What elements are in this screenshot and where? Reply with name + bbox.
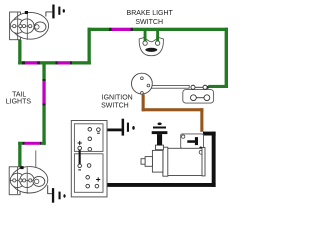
- svg-text:LIGHTS: LIGHTS: [6, 99, 32, 106]
- svg-text:BRAKE LIGHT: BRAKE LIGHT: [127, 10, 174, 17]
- svg-text:SWITCH: SWITCH: [101, 102, 129, 109]
- svg-text:IGNITION: IGNITION: [102, 95, 133, 102]
- svg-text:SWITCH: SWITCH: [135, 19, 163, 26]
- svg-text:TAIL: TAIL: [12, 91, 26, 98]
